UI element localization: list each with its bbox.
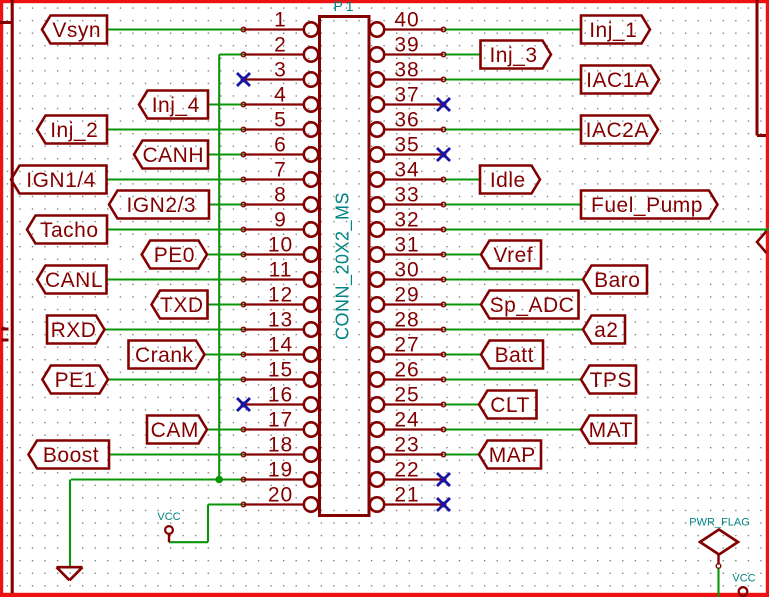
- wire pin 30 right: [444, 278, 583, 280]
- wire pin 17 left: [207, 428, 244, 430]
- svg-text:29: 29: [394, 284, 419, 307]
- pin 2: [241, 34, 318, 62]
- svg-text:14: 14: [268, 334, 293, 357]
- wire pin 15 left: [108, 378, 244, 380]
- hierarchical label IAC2A: [581, 116, 658, 144]
- svg-text:24: 24: [394, 409, 419, 432]
- svg-text:IAC1A: IAC1A: [586, 69, 649, 92]
- no-connect pin 3: [237, 73, 250, 86]
- wire pin 10 left: [207, 253, 244, 255]
- hierarchical label Baro: [583, 266, 647, 294]
- svg-text:Vref: Vref: [493, 244, 533, 267]
- svg-text:Baro: Baro: [594, 269, 640, 292]
- svg-text:VCC: VCC: [732, 573, 755, 585]
- wire pin 6 left: [208, 153, 244, 155]
- svg-text:15: 15: [268, 359, 293, 382]
- hierarchical label Inj_1: [581, 16, 650, 44]
- svg-text:CONN_20X2_MS: CONN_20X2_MS: [333, 192, 354, 340]
- wire pin 9 left: [107, 228, 244, 230]
- pin 29: [370, 284, 446, 312]
- svg-text:Tacho: Tacho: [40, 219, 99, 242]
- svg-text:IGN2/3: IGN2/3: [126, 194, 196, 217]
- svg-text:TPS: TPS: [590, 369, 632, 392]
- clipped label tip right edge: [757, 231, 767, 253]
- power VCC (bottom right): [732, 573, 755, 596]
- svg-text:39: 39: [394, 34, 419, 57]
- pin 16: [241, 384, 318, 412]
- pin 19: [241, 459, 318, 487]
- svg-text:P1: P1: [333, 0, 356, 14]
- pin 21: [370, 484, 446, 512]
- svg-text:Boost: Boost: [43, 444, 99, 467]
- wire pin 13 left: [105, 328, 244, 330]
- pin 35: [370, 134, 446, 162]
- svg-text:11: 11: [269, 259, 293, 282]
- svg-text:VCC: VCC: [157, 511, 180, 523]
- pin 10: [241, 234, 318, 262]
- svg-text:12: 12: [268, 284, 293, 307]
- svg-text:TXD: TXD: [160, 294, 204, 317]
- svg-text:2: 2: [274, 34, 287, 57]
- svg-text:19: 19: [268, 459, 293, 482]
- svg-text:34: 34: [394, 159, 419, 182]
- wire pin 5 left: [107, 128, 244, 130]
- svg-text:CANL: CANL: [45, 269, 103, 292]
- svg-text:30: 30: [394, 259, 419, 282]
- svg-text:Batt: Batt: [495, 344, 534, 367]
- hierarchical label IAC1A: [581, 66, 659, 94]
- svg-text:PE0: PE0: [154, 244, 195, 267]
- hierarchical label Vsyn: [42, 16, 107, 44]
- pin 20: [241, 484, 318, 512]
- svg-text:35: 35: [394, 134, 419, 157]
- pin 25: [370, 384, 446, 412]
- hierarchical label Sp_ADC: [481, 291, 579, 319]
- svg-text:CAM: CAM: [151, 419, 199, 442]
- wire PWR_FLAG to VCC: [717, 569, 719, 597]
- pin 28: [370, 309, 446, 337]
- wire pin 33 right: [444, 203, 581, 205]
- hierarchical label Crank: [129, 341, 205, 369]
- hierarchical label Fuel_Pump: [581, 191, 718, 219]
- svg-text:13: 13: [268, 309, 293, 332]
- pin 15: [241, 359, 318, 387]
- wire pin 31 right: [444, 253, 481, 255]
- svg-text:PE1: PE1: [55, 369, 96, 392]
- no-connect pin 22: [437, 473, 450, 486]
- svg-text:37: 37: [394, 84, 419, 107]
- svg-text:Inj_3: Inj_3: [489, 44, 537, 67]
- svg-text:22: 22: [394, 459, 419, 482]
- wire pin 40 right: [444, 28, 581, 30]
- svg-text:10: 10: [268, 234, 293, 257]
- svg-text:Crank: Crank: [135, 344, 194, 367]
- pin 14: [241, 334, 318, 362]
- wire pin 23 right: [444, 453, 479, 455]
- hierarchical label TXD: [152, 291, 208, 319]
- pin 3: [241, 59, 318, 87]
- pin 36: [370, 109, 446, 137]
- pin 32: [370, 209, 446, 237]
- svg-text:MAT: MAT: [589, 419, 633, 442]
- hierarchical label Vref: [481, 241, 541, 269]
- svg-text:28: 28: [394, 309, 419, 332]
- svg-text:Sp_ADC: Sp_ADC: [490, 294, 575, 317]
- junction pin19/bus: [215, 476, 223, 484]
- wire pin 1 left: [107, 28, 244, 30]
- hierarchical label CANL: [37, 266, 107, 294]
- svg-text:27: 27: [394, 334, 419, 357]
- pin 31: [370, 234, 446, 262]
- svg-text:33: 33: [394, 184, 419, 207]
- wire pin 19 left: [71, 478, 244, 480]
- svg-text:6: 6: [274, 134, 287, 157]
- hierarchical label CAM: [147, 416, 207, 444]
- svg-text:9: 9: [274, 209, 287, 232]
- hierarchical label Inj_4: [139, 91, 208, 119]
- pin 11: [241, 259, 318, 287]
- wire pin 8 left: [209, 203, 244, 205]
- svg-text:18: 18: [268, 434, 293, 457]
- hierarchical label Tacho: [27, 216, 107, 244]
- wire pin 18 left: [109, 453, 244, 455]
- wire pin 20 left: [208, 503, 244, 505]
- svg-text:CLT: CLT: [490, 394, 530, 417]
- hierarchical label MAT: [581, 416, 636, 444]
- svg-text:IGN1/4: IGN1/4: [26, 169, 96, 192]
- pin 39: [370, 34, 446, 62]
- clipped label fragment left edge: [2, 327, 9, 340]
- wire pin 36 right: [444, 128, 581, 130]
- pin 12: [241, 284, 318, 312]
- svg-text:16: 16: [268, 384, 293, 407]
- svg-text:7: 7: [274, 159, 287, 182]
- svg-text:17: 17: [268, 409, 293, 432]
- no-connect pin 16: [237, 398, 250, 411]
- svg-text:3: 3: [274, 59, 287, 82]
- svg-text:IAC2A: IAC2A: [586, 119, 649, 142]
- hierarchical label TPS: [581, 366, 636, 394]
- pin 37: [370, 84, 446, 112]
- pin 27: [370, 334, 446, 362]
- hierarchical label Batt: [481, 341, 543, 369]
- pin 8: [241, 184, 318, 212]
- svg-text:4: 4: [274, 84, 287, 107]
- svg-text:a2: a2: [594, 319, 618, 342]
- wire pin 25 right: [444, 403, 479, 405]
- wire bus pin2 to pin19 vertical: [218, 55, 220, 480]
- wire pin19 to ground vertical: [69, 480, 71, 567]
- svg-text:5: 5: [274, 109, 287, 132]
- hierarchical label IGN1/4: [11, 166, 107, 194]
- no-connect pin 21: [437, 498, 450, 511]
- svg-text:Vsyn: Vsyn: [52, 19, 101, 42]
- wire pin 27 right: [444, 353, 481, 355]
- wire pin 32 right: [444, 228, 769, 230]
- hierarchical label CANH: [134, 141, 208, 169]
- hierarchical label PE0: [142, 241, 207, 269]
- hierarchical label IGN2/3: [109, 191, 209, 219]
- svg-text:26: 26: [394, 359, 419, 382]
- svg-text:31: 31: [394, 234, 419, 257]
- svg-text:1: 1: [274, 9, 287, 32]
- svg-text:36: 36: [394, 109, 419, 132]
- svg-text:Fuel_Pump: Fuel_Pump: [591, 194, 703, 217]
- pin 22: [370, 459, 446, 487]
- pin 34: [370, 159, 446, 187]
- svg-text:CANH: CANH: [142, 144, 204, 167]
- no-connect pin 35: [437, 148, 450, 161]
- svg-text:PWR_FLAG: PWR_FLAG: [689, 517, 750, 529]
- wire pin 4 left: [208, 103, 244, 105]
- pin 17: [241, 409, 318, 437]
- wire pin 28 right: [444, 328, 583, 330]
- power flag PWR_FLAG: [689, 517, 750, 569]
- wire pin20 to VCC: [169, 505, 208, 543]
- svg-text:38: 38: [394, 59, 419, 82]
- hierarchical label a2: [583, 316, 625, 344]
- hierarchical label Idle: [480, 166, 540, 194]
- wire pin 26 right: [444, 378, 581, 380]
- wire pin 34 right: [444, 178, 480, 180]
- svg-text:MAP: MAP: [489, 444, 536, 467]
- pin 18: [241, 434, 318, 462]
- connector P1 CONN_20X2_MS body: [320, 17, 370, 516]
- pin 5: [241, 109, 318, 137]
- svg-text:Inj_2: Inj_2: [50, 119, 98, 142]
- pin 1: [241, 9, 318, 37]
- pin 40: [370, 9, 446, 37]
- pin 26: [370, 359, 446, 387]
- svg-text:RXD: RXD: [51, 319, 97, 342]
- svg-text:Inj_4: Inj_4: [152, 94, 200, 117]
- svg-text:23: 23: [394, 434, 419, 457]
- pin 38: [370, 59, 446, 87]
- wire pin 39 right: [444, 53, 481, 55]
- pin 23: [370, 434, 446, 462]
- no-connect pin 37: [437, 98, 450, 111]
- clipped symbol outline left edge: [0, 0, 12, 593]
- wire pin 2 left: [219, 53, 243, 55]
- svg-text:Idle: Idle: [490, 169, 526, 192]
- clipped symbol outline right edge: [757, 0, 766, 136]
- hierarchical label MAP: [479, 441, 541, 469]
- wire pin 14 left: [205, 353, 244, 355]
- wire pin 7 left: [107, 178, 244, 180]
- pin 4: [241, 84, 318, 112]
- wire pin 24 right: [444, 428, 581, 430]
- power VCC (bottom left): [157, 511, 180, 542]
- wire pin 29 right: [444, 303, 481, 305]
- ground symbol GND: [57, 567, 83, 580]
- svg-text:8: 8: [274, 184, 287, 207]
- hierarchical label Boost: [29, 441, 110, 469]
- wire pin 12 left: [208, 303, 244, 305]
- wire pin 38 right: [444, 78, 581, 80]
- pin 30: [370, 259, 446, 287]
- hierarchical label Inj_2: [37, 116, 107, 144]
- hierarchical label RXD: [47, 316, 105, 344]
- pin 7: [241, 159, 318, 187]
- pin 6: [241, 134, 318, 162]
- svg-text:40: 40: [394, 9, 419, 32]
- pin 9: [241, 209, 318, 237]
- hierarchical label Inj_3: [481, 41, 552, 69]
- svg-text:25: 25: [394, 384, 419, 407]
- svg-text:20: 20: [268, 484, 293, 507]
- svg-text:21: 21: [394, 484, 419, 507]
- pin 33: [370, 184, 446, 212]
- pin 24: [370, 409, 446, 437]
- svg-text:32: 32: [394, 209, 419, 232]
- wire pin 11 left: [107, 278, 244, 280]
- hierarchical label PE1: [42, 366, 108, 394]
- hierarchical label CLT: [479, 391, 537, 419]
- pin 13: [241, 309, 318, 337]
- svg-text:Inj_1: Inj_1: [589, 19, 637, 42]
